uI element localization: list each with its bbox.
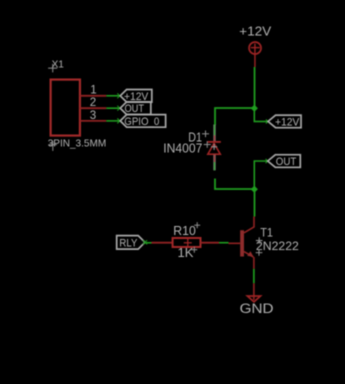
junction node B bbox=[251, 186, 258, 193]
value 3PIN_3.5MM bbox=[48, 137, 107, 151]
net flag OUT (left) bbox=[120, 102, 151, 115]
pin 3 bbox=[80, 110, 106, 122]
net flag GPIO_0 bbox=[120, 115, 165, 128]
wire node B to transistor collector bbox=[253, 189, 255, 217]
svg-text:T1: T1 bbox=[260, 228, 273, 240]
label R10 bbox=[173, 222, 200, 238]
wire node A to flag +12V right bbox=[254, 108, 270, 124]
ground GND symbol bbox=[247, 296, 260, 302]
wire node A to diode top bbox=[215, 108, 255, 125]
wire RLY flag to resistor bbox=[143, 240, 152, 244]
svg-text:3PIN_3.5MM: 3PIN_3.5MM bbox=[48, 137, 107, 149]
svg-text:1K: 1K bbox=[177, 245, 193, 260]
resistor R10 right pin bbox=[200, 242, 219, 244]
wire diode bottom to node B bbox=[215, 179, 255, 190]
transistor T1 base bar bbox=[240, 230, 244, 256]
svg-text:R10: R10 bbox=[173, 223, 196, 238]
transistor T1 collector pin bbox=[244, 217, 254, 233]
wire resistor to base bbox=[219, 242, 229, 244]
resistor R10 left pin bbox=[151, 242, 172, 244]
wire pin3 to flag bbox=[106, 118, 122, 123]
svg-text:+12V: +12V bbox=[239, 24, 271, 39]
wire pin1 to flag bbox=[106, 93, 122, 98]
svg-text:IN4007: IN4007 bbox=[163, 142, 202, 156]
wire node B to flag OUT right bbox=[254, 159, 270, 189]
pin 1 bbox=[80, 85, 106, 97]
wire emitter to gnd bbox=[253, 269, 255, 284]
svg-text:OUT: OUT bbox=[125, 103, 145, 115]
svg-text:GPIO_0: GPIO_0 bbox=[124, 116, 159, 128]
resistor R10 body bbox=[173, 238, 201, 247]
svg-text:1: 1 bbox=[90, 85, 96, 97]
svg-text:+12V: +12V bbox=[124, 91, 149, 103]
net flag OUT (right) bbox=[268, 155, 301, 168]
svg-text:2N2222: 2N2222 bbox=[256, 241, 299, 253]
diode D1 body bbox=[207, 142, 221, 154]
junction node A bbox=[251, 105, 258, 112]
svg-text:X1: X1 bbox=[52, 59, 65, 70]
svg-text:3: 3 bbox=[90, 110, 96, 122]
label X1 bbox=[48, 59, 64, 72]
label T1 bbox=[256, 228, 273, 244]
svg-text:2: 2 bbox=[90, 97, 96, 109]
svg-text:GND: GND bbox=[240, 301, 274, 316]
transistor T1 emitter pin bbox=[244, 251, 254, 269]
value 1K bbox=[177, 245, 197, 260]
connector X1 body bbox=[51, 80, 80, 136]
net flag RLY bbox=[117, 236, 145, 250]
label D1 bbox=[188, 130, 209, 144]
svg-text:RLY: RLY bbox=[119, 237, 137, 249]
value 2N2222 bbox=[256, 241, 299, 256]
svg-text:OUT: OUT bbox=[276, 156, 297, 168]
diode D1 pin bottom bbox=[213, 155, 215, 171]
value IN4007 bbox=[163, 141, 210, 155]
diode D1 pin top bbox=[213, 125, 215, 142]
pin 2 bbox=[80, 97, 106, 109]
transistor T1 base pin bbox=[228, 242, 240, 244]
wire pin2 to flag bbox=[106, 106, 122, 111]
supply +12V symbol bbox=[249, 42, 261, 67]
svg-text:+12V: +12V bbox=[275, 116, 300, 128]
ground pin bbox=[253, 283, 255, 300]
net flag +12V (right) bbox=[268, 115, 301, 128]
net flag +12V (left) bbox=[120, 89, 152, 102]
wire from supply to node bbox=[254, 67, 256, 108]
